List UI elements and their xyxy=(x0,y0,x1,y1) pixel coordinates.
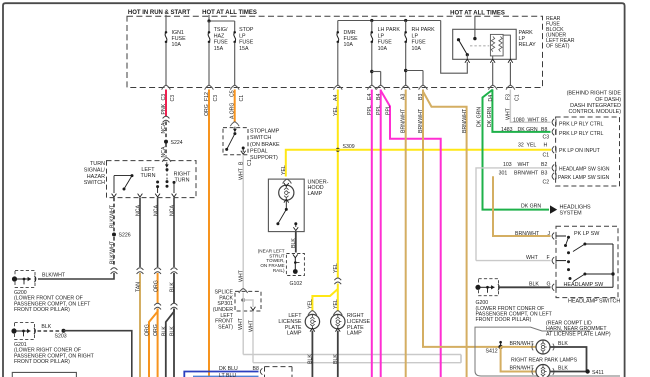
svg-text:ORG: ORG xyxy=(153,280,159,292)
svg-text:C3: C3 xyxy=(213,95,219,102)
svg-text:C3: C3 xyxy=(170,95,176,102)
svg-text:WHT: WHT xyxy=(518,162,531,168)
wire BRN/WHT B3 to S412 xyxy=(423,90,501,347)
wires WHT below splice xyxy=(242,311,244,355)
svg-text:HOT AT ALL TIMES: HOT AT ALL TIMES xyxy=(450,11,505,17)
svg-text:PRK LP RLY CTRL: PRK LP RLY CTRL xyxy=(559,131,604,137)
svg-text:DK BLU: DK BLU xyxy=(219,366,238,372)
svg-text:BRN/WHT: BRN/WHT xyxy=(418,108,424,133)
svg-text:B8: B8 xyxy=(541,127,547,133)
wire WHT F3 xyxy=(510,90,550,123)
wire BLK to G102 xyxy=(295,232,297,253)
turn signal / hazard switch box xyxy=(107,161,197,198)
svg-text:BLK/WHT: BLK/WHT xyxy=(110,240,116,264)
svg-text:TSIG/: TSIG/ xyxy=(214,27,228,33)
svg-text:NCA: NCA xyxy=(153,205,159,216)
svg-text:HAZ: HAZ xyxy=(214,33,225,39)
svg-text:NCA: NCA xyxy=(161,122,167,133)
svg-text:PK LP ON INPUT: PK LP ON INPUT xyxy=(559,148,601,154)
svg-text:10A: 10A xyxy=(344,42,354,48)
svg-text:J: J xyxy=(548,231,551,237)
svg-text:PNK: PNK xyxy=(161,103,167,114)
svg-text:PEDAL: PEDAL xyxy=(250,148,268,154)
svg-text:HOT AT ALL TIMES: HOT AT ALL TIMES xyxy=(202,10,257,16)
bottom dashed box (clipped) xyxy=(265,366,293,368)
svg-text:BLK: BLK xyxy=(333,354,339,364)
svg-text:DASH INTEGRATED: DASH INTEGRATED xyxy=(570,103,621,109)
svg-text:LAMP: LAMP xyxy=(308,191,323,197)
svg-text:RH PARK: RH PARK xyxy=(412,27,436,33)
svg-text:PPL: PPL xyxy=(386,105,392,115)
wire NCA / BLK column xyxy=(173,198,175,267)
svg-text:PK LP SW: PK LP SW xyxy=(574,231,600,237)
wire BRN/WHT 301: module B3 to switch J xyxy=(493,176,551,236)
svg-text:YEL: YEL xyxy=(333,263,339,273)
svg-text:STOP: STOP xyxy=(239,27,254,33)
wire ORG F12 xyxy=(208,90,210,377)
svg-text:ORG: ORG xyxy=(204,104,210,116)
svg-text:LP: LP xyxy=(412,33,419,39)
svg-text:LAMP: LAMP xyxy=(347,331,362,337)
svg-text:FRONT DOOR PILLAR): FRONT DOOR PILLAR) xyxy=(14,359,70,365)
ground G200 (right) xyxy=(479,279,499,296)
wire ORG to stoplamp switch xyxy=(234,90,236,123)
svg-text:PRK LP RLY CTRL: PRK LP RLY CTRL xyxy=(559,121,604,127)
dash integrated control module box xyxy=(556,117,620,186)
left license plate lamp E xyxy=(308,311,317,315)
svg-text:HEADLAMP SW SIGN: HEADLAMP SW SIGN xyxy=(559,167,610,173)
wire LT BLU (clipped) xyxy=(193,376,259,377)
svg-text:10A: 10A xyxy=(378,46,388,52)
svg-text:(BEHIND RIGHT SIDE: (BEHIND RIGHT SIDE xyxy=(567,91,622,97)
svg-text:BLK/WHT: BLK/WHT xyxy=(110,204,116,228)
svg-text:FRONT DOOR PILLAR): FRONT DOOR PILLAR) xyxy=(476,317,532,323)
svg-text:DK GRN: DK GRN xyxy=(487,107,493,127)
svg-text:WHT: WHT xyxy=(526,255,539,261)
svg-text:YEL: YEL xyxy=(527,142,537,148)
svg-text:S411: S411 xyxy=(592,370,604,376)
svg-text:A3: A3 xyxy=(401,94,407,100)
svg-text:LP: LP xyxy=(378,33,385,39)
splice S412 xyxy=(498,345,502,349)
svg-text:15A: 15A xyxy=(239,46,249,52)
svg-text:BRN/WHT: BRN/WHT xyxy=(401,108,407,133)
svg-text:STOPLAMP: STOPLAMP xyxy=(250,129,280,135)
svg-text:NCA: NCA xyxy=(170,205,176,216)
svg-text:SEAT): SEAT) xyxy=(218,324,233,330)
svg-text:BLK: BLK xyxy=(308,354,314,364)
under-hood lamp switch xyxy=(285,208,288,211)
svg-text:SUPPORT): SUPPORT) xyxy=(250,155,278,161)
svg-text:TURN: TURN xyxy=(90,161,105,167)
feed HOT AT ALL TIMES to relay coil common xyxy=(474,16,476,39)
svg-text:HAZAR: HAZAR xyxy=(87,174,105,180)
splice S224 xyxy=(164,140,168,144)
BLK splits xyxy=(173,309,175,377)
ground G201 + S203 xyxy=(15,322,35,339)
wire BLK from G200 to pin G xyxy=(500,286,551,288)
ground G102 xyxy=(286,254,304,276)
svg-text:BLK/WHT: BLK/WHT xyxy=(42,273,66,279)
wire BRN/WHT B3 branch xyxy=(423,92,467,377)
feed + bus for TSIG/STOP fuses xyxy=(208,15,210,21)
relay terminal arrows xyxy=(465,59,470,62)
inline connector on PNK/NCA xyxy=(163,116,170,118)
svg-text:TAN: TAN xyxy=(136,282,142,292)
svg-text:BLK: BLK xyxy=(170,326,176,336)
wire DK BLU xyxy=(184,372,258,377)
wire YEL to PK LP ON INPUT xyxy=(338,149,551,151)
relay feed wire from bus to relay terminal 1 xyxy=(441,21,468,74)
svg-text:B3: B3 xyxy=(418,94,424,100)
under-hood lamp bulb xyxy=(279,185,294,200)
fuse box bottom connectors xyxy=(162,85,171,89)
svg-text:B3: B3 xyxy=(541,170,547,176)
svg-text:OF DASH): OF DASH) xyxy=(595,97,621,103)
svg-text:ORG: ORG xyxy=(145,324,151,336)
svg-text:AT LICENSE PLATE LAMP): AT LICENSE PLATE LAMP) xyxy=(546,332,611,338)
wire YEL from DMR fuse with S309 xyxy=(337,90,339,278)
svg-text:RAIL): RAIL) xyxy=(273,268,285,273)
wire NCA / TAN column xyxy=(139,198,141,267)
svg-text:PPL: PPL xyxy=(367,105,373,115)
svg-text:15A: 15A xyxy=(214,46,224,52)
svg-text:D4: D4 xyxy=(488,95,494,102)
fuse IGN1 FUSE 10A xyxy=(165,15,167,31)
svg-text:(ON BRAKE: (ON BRAKE xyxy=(250,142,280,148)
relay coil xyxy=(490,34,503,56)
svg-text:C5: C5 xyxy=(230,90,236,97)
svg-text:HEADLAMP SWITCH: HEADLAMP SWITCH xyxy=(568,299,620,305)
under-hood lamp E: box xyxy=(283,179,292,183)
svg-text:SWITCH: SWITCH xyxy=(84,180,105,186)
svg-text:G102: G102 xyxy=(290,281,303,287)
svg-text:C1: C1 xyxy=(543,152,550,158)
svg-text:B2: B2 xyxy=(541,162,547,168)
svg-text:LH PARK: LH PARK xyxy=(378,27,401,33)
wire NCA / ORG column xyxy=(157,198,159,267)
svg-text:S412: S412 xyxy=(486,349,498,355)
ground G200 (left) xyxy=(15,270,35,287)
svg-text:BLK: BLK xyxy=(162,326,168,336)
svg-text:32: 32 xyxy=(518,142,524,148)
splice S309 xyxy=(336,148,340,152)
rear compt lid harness boundary xyxy=(475,327,620,376)
svg-text:SIGNAL/: SIGNAL/ xyxy=(84,168,106,174)
YEL inline connector + split to license lamps xyxy=(334,278,341,280)
svg-text:B4: B4 xyxy=(376,94,382,100)
wire PNK from IGN1 fuse xyxy=(165,90,167,117)
svg-text:C2: C2 xyxy=(543,180,550,186)
svg-text:SWITCH: SWITCH xyxy=(250,135,271,141)
svg-text:C3: C3 xyxy=(161,94,167,101)
fuse TSIG/HAZ FUSE 15A xyxy=(208,21,210,31)
svg-text:FUSE: FUSE xyxy=(378,40,393,46)
svg-text:NCA: NCA xyxy=(161,146,167,157)
wire WHT 103 to module xyxy=(460,355,462,363)
wire DK GRN D4 xyxy=(483,90,550,210)
fuse LH PARK LP FUSE 10A xyxy=(371,21,373,32)
svg-text:LT BLU: LT BLU xyxy=(219,373,236,377)
svg-text:LAMP: LAMP xyxy=(287,331,302,337)
svg-text:C1: C1 xyxy=(515,94,521,101)
svg-text:F3: F3 xyxy=(506,94,512,100)
svg-text:TURN: TURN xyxy=(175,177,190,183)
svg-text:RIGHT REAR PARK LAMPS: RIGHT REAR PARK LAMPS xyxy=(511,358,578,364)
svg-text:DK GRN: DK GRN xyxy=(476,107,482,127)
svg-text:FUSE: FUSE xyxy=(214,40,229,46)
svg-text:YEL: YEL xyxy=(281,165,287,175)
svg-text:YEL: YEL xyxy=(333,106,339,116)
fuse DMR FUSE 10A xyxy=(337,21,339,32)
splice pack SP301 xyxy=(239,289,248,293)
svg-text:E4: E4 xyxy=(367,94,373,100)
arrow to HEADLIGHS SYSTEM xyxy=(550,205,557,213)
svg-text:10A: 10A xyxy=(172,42,182,48)
wire BLK/WHT to G200 xyxy=(38,273,114,279)
svg-text:C1: C1 xyxy=(239,95,245,102)
fuse RH PARK LP FUSE 10A xyxy=(405,21,407,32)
svg-text:ORG: ORG xyxy=(153,324,159,336)
svg-text:LP: LP xyxy=(239,33,246,39)
svg-text:103: 103 xyxy=(503,162,512,168)
wire PPL E4 xyxy=(371,90,373,377)
svg-text:FUSE: FUSE xyxy=(412,40,427,46)
headlamp switch box xyxy=(556,226,618,297)
wire BRN/WHT A3 xyxy=(405,90,407,377)
svg-text:PPL: PPL xyxy=(376,105,382,115)
svg-text:BLK: BLK xyxy=(558,365,568,371)
left blade xyxy=(114,175,132,177)
switch internals xyxy=(166,162,168,166)
stoplamp switch box xyxy=(223,128,248,155)
rear fuse block box (dashed) xyxy=(127,16,543,87)
svg-text:10A: 10A xyxy=(412,46,422,52)
svg-text:HOT IN RUN & START: HOT IN RUN & START xyxy=(128,10,191,16)
svg-text:1080: 1080 xyxy=(513,117,525,123)
svg-text:WHT: WHT xyxy=(248,319,254,332)
svg-text:BRN/WHT: BRN/WHT xyxy=(514,170,539,176)
svg-text:C1: C1 xyxy=(247,159,253,166)
svg-text:BLK: BLK xyxy=(291,238,297,248)
svg-text:B8: B8 xyxy=(253,366,259,372)
switch output arrows xyxy=(112,194,117,197)
svg-text:F12: F12 xyxy=(204,92,210,101)
svg-text:FRONT DOOR PILLAR): FRONT DOOR PILLAR) xyxy=(14,307,70,313)
svg-text:WHT: WHT xyxy=(506,107,512,120)
wire BLK/WHT to S226 xyxy=(113,198,115,232)
svg-text:A ORG: A ORG xyxy=(230,103,236,119)
svg-text:BLK: BLK xyxy=(170,282,176,292)
svg-text:TURN: TURN xyxy=(141,173,156,179)
svg-text:H: H xyxy=(544,142,548,148)
svg-text:BRN/WHT: BRN/WHT xyxy=(515,231,540,237)
node: LH fuse splits to E4/B4 xyxy=(370,70,373,73)
bus for DMR/LH/RH fuses + relay feed xyxy=(338,20,441,22)
svg-text:F: F xyxy=(547,255,550,261)
svg-text:1483: 1483 xyxy=(501,127,513,133)
svg-text:BRN/WHT: BRN/WHT xyxy=(510,365,535,371)
svg-text:CONTROL MODULE): CONTROL MODULE) xyxy=(568,109,621,115)
svg-text:S224: S224 xyxy=(171,140,183,146)
svg-text:YEL: YEL xyxy=(333,299,339,309)
svg-text:FUSE: FUSE xyxy=(239,40,254,46)
node: RH fuse splits to A3/B3 xyxy=(404,69,407,72)
svg-text:S226: S226 xyxy=(119,233,131,239)
relay linkage dashed xyxy=(470,45,489,47)
svg-text:BLK: BLK xyxy=(558,341,568,347)
wire WHT horizontal runs xyxy=(243,354,461,356)
fuse STOP LP FUSE 15A xyxy=(234,21,236,31)
switch internals xyxy=(557,235,567,237)
svg-text:BRN/WHT: BRN/WHT xyxy=(510,341,535,347)
svg-text:301: 301 xyxy=(499,170,508,176)
right rear park lamp 2 xyxy=(501,347,536,372)
wire YEL branch to under-hood lamp xyxy=(286,150,338,177)
svg-text:DK GRN: DK GRN xyxy=(521,203,541,209)
svg-text:C3: C3 xyxy=(543,134,550,140)
svg-text:WHT: WHT xyxy=(238,269,244,282)
wire NCA to S224 xyxy=(165,122,167,140)
svg-text:BRN/WHT: BRN/WHT xyxy=(462,108,468,133)
splice S411 xyxy=(585,369,589,373)
svg-text:WHT: WHT xyxy=(238,317,244,330)
svg-text:RELAY: RELAY xyxy=(519,42,537,48)
right license plate lamp E xyxy=(333,311,342,315)
svg-text:DK GRN: DK GRN xyxy=(518,127,538,133)
park lp relay U: box xyxy=(453,29,517,59)
svg-text:B: B xyxy=(238,161,244,165)
svg-text:A4: A4 xyxy=(333,95,339,101)
svg-text:B5: B5 xyxy=(541,117,547,123)
wire PPL B4 with branch xyxy=(380,90,382,377)
splice S226 xyxy=(112,233,116,237)
svg-text:S203: S203 xyxy=(55,334,67,340)
right rear park lamp 1 xyxy=(501,346,536,348)
wire WHT from stoplamp switch xyxy=(242,155,244,289)
svg-text:WHT: WHT xyxy=(238,167,244,180)
svg-text:SYSTEM: SYSTEM xyxy=(560,210,583,216)
relay switch contacts xyxy=(457,38,460,41)
ORG splits xyxy=(157,309,159,377)
svg-text:PARK LAMP SW SIGN: PARK LAMP SW SIGN xyxy=(558,175,610,181)
svg-text:YEL: YEL xyxy=(308,299,314,309)
svg-text:OF SEAT): OF SEAT) xyxy=(546,44,570,50)
bottom-left partial box xyxy=(12,372,76,377)
svg-text:BLK: BLK xyxy=(41,324,51,330)
wire NCA to turn signal switch xyxy=(165,144,167,157)
svg-text:WHT: WHT xyxy=(528,117,541,123)
svg-text:NCA: NCA xyxy=(136,205,142,216)
